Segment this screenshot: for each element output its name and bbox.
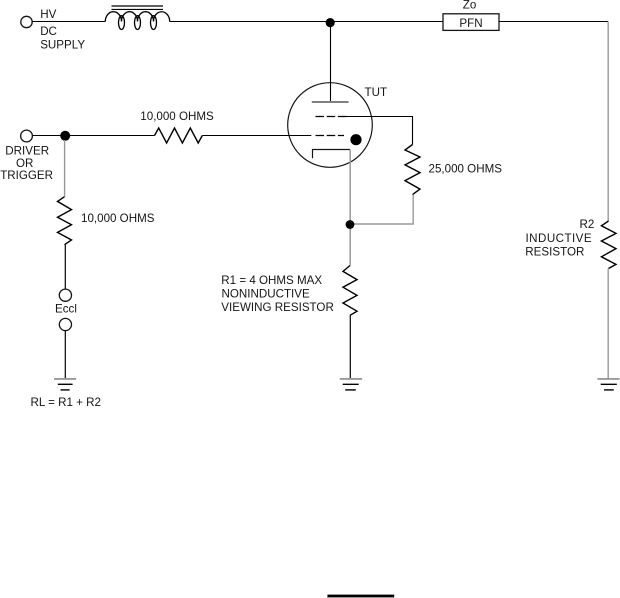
svg-text:Eccl: Eccl — [55, 303, 77, 316]
inductor L1 loop 1 — [119, 16, 125, 30]
inductor L1 core line lower — [112, 8, 164, 10]
svg-text:HV: HV — [40, 8, 56, 21]
svg-text:NONINDUCTIVE: NONINDUCTIVE — [222, 287, 311, 300]
wire PFN to right corner and down to R2 — [499, 21, 608, 23]
wire anode lead from top junction — [330, 22, 332, 102]
node junction driver — [60, 131, 70, 141]
wire Eccl terminal to ground — [64, 331, 66, 378]
terminal Eccl upper — [59, 289, 71, 301]
inductor L1 coil — [105, 12, 169, 22]
wire bias resistor to Eccl terminal — [64, 245, 66, 289]
wire 25k resistor down and left to cathode node — [354, 195, 413, 224]
wire R1 to ground — [349, 315, 351, 378]
wire cathode lead down — [349, 150, 351, 266]
inductor L1 core line upper — [112, 5, 164, 7]
page footer mark — [327, 595, 394, 598]
node junction top (anode tap) — [326, 18, 335, 27]
terminal Eccl lower — [59, 318, 71, 330]
tube TUT envelope — [288, 83, 373, 168]
resistor R1 viewing resistor zigzag — [343, 266, 357, 316]
terminal HV supply — [21, 16, 32, 27]
ground left — [54, 379, 76, 390]
svg-text:R1 = 4 OHMS MAX: R1 = 4 OHMS MAX — [221, 274, 322, 287]
ground middle — [340, 379, 362, 390]
svg-text:25,000 OHMS: 25,000 OHMS — [429, 162, 503, 175]
wire inductor to PFN — [170, 21, 443, 23]
svg-text:SUPPLY: SUPPLY — [40, 39, 85, 52]
inductor L1 loop 3 — [151, 16, 157, 30]
resistor 25,000 ohms zigzag — [405, 145, 420, 195]
svg-text:RL = R1 + R2: RL = R1 + R2 — [31, 396, 101, 409]
svg-text:VIEWING RESISTOR: VIEWING RESISTOR — [221, 301, 334, 314]
wire R2 to ground — [607, 269, 609, 379]
wire HV terminal to inductor — [33, 21, 106, 23]
svg-text:R2: R2 — [580, 218, 595, 231]
tube grid 1 (dashed) — [316, 116, 347, 118]
tube grid-cathode node dot — [350, 134, 361, 145]
svg-text:INDUCTIVE: INDUCTIVE — [526, 232, 593, 245]
svg-text:Zo: Zo — [463, 0, 477, 11]
terminal DRIVER — [21, 130, 33, 142]
wire driver terminal to grid resistor — [33, 135, 155, 137]
svg-text:PFN: PFN — [459, 17, 482, 30]
node junction cathode — [346, 220, 355, 229]
wire grid1 to 25k resistor — [346, 117, 413, 145]
svg-text:10,000 OHMS: 10,000 OHMS — [140, 110, 214, 123]
resistor 10,000 ohms horizontal zigzag — [155, 128, 203, 143]
wire resistor to tube grid — [202, 135, 311, 137]
svg-text:DC: DC — [40, 25, 57, 38]
resistor 10,000 ohms vertical zigzag — [58, 197, 72, 245]
inductor L1 loop 2 — [135, 16, 141, 30]
resistor R2 zigzag — [601, 221, 616, 269]
tube cathode — [313, 150, 351, 159]
svg-text:10,000 OHMS: 10,000 OHMS — [81, 212, 155, 225]
svg-text:OR: OR — [16, 157, 33, 170]
ground right — [598, 379, 620, 390]
wire driver junction down to bias resistor — [64, 140, 66, 197]
svg-text:DRIVER: DRIVER — [5, 144, 49, 157]
svg-text:TUT: TUT — [365, 86, 388, 99]
box PFN — [443, 14, 499, 31]
svg-text:TRIGGER: TRIGGER — [0, 169, 53, 182]
tube grid 2 (dashed) — [316, 135, 345, 137]
svg-text:RESISTOR: RESISTOR — [525, 246, 584, 259]
tube plate (anode bar) — [312, 101, 349, 103]
